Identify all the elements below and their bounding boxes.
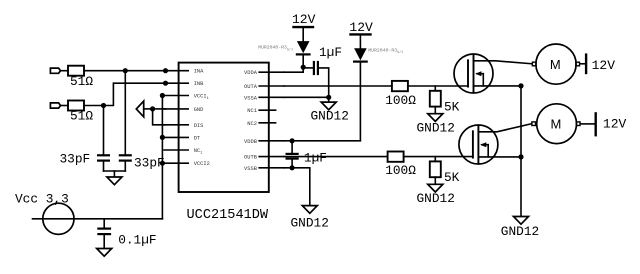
node VCCI1 pin tip — [160, 93, 165, 98]
transistor Q1 — [454, 54, 493, 93]
wire R5 to Q2 gate — [404, 156, 473, 158]
svg-text:12V: 12V — [349, 20, 373, 35]
Q1 arrow — [477, 73, 483, 75]
ground GND12 #2 — [428, 114, 443, 122]
svg-text:1µF: 1µF — [304, 151, 327, 166]
node VSSB junction — [290, 165, 295, 170]
svg-text:OUTA: OUTA — [244, 84, 258, 90]
resistor R1 51ohm — [68, 66, 84, 76]
resistor R6 5K — [430, 161, 441, 177]
svg-text:GND: GND — [194, 107, 204, 113]
svg-text:12V: 12V — [592, 58, 616, 73]
resistor R2 51ohm — [68, 101, 84, 111]
wire node to INB (jog) — [104, 83, 166, 105]
pin 11 VDDB — [259, 140, 284, 142]
node VSSA junction — [326, 95, 331, 100]
svg-text:GND12: GND12 — [501, 224, 539, 239]
node VDDB junction — [290, 138, 295, 143]
wire cap2 branch down to C2 — [124, 71, 126, 156]
svg-text:DIS: DIS — [194, 123, 204, 129]
wire R6 tap — [434, 157, 436, 162]
svg-text:0.1µF: 0.1µF — [118, 232, 156, 247]
pin 16 VDDA — [259, 71, 284, 73]
svg-text:GND12: GND12 — [311, 109, 349, 124]
svg-text:1µF: 1µF — [319, 45, 342, 60]
Q1 drain wire to motor — [474, 61, 533, 64]
wire arrow to node — [144, 108, 153, 110]
pin 13 NC1 — [259, 109, 275, 111]
op-amp U1 UCC21541DW body — [179, 63, 269, 192]
capacitor C5 1uF — [291, 141, 293, 154]
pin 9 VSSB — [259, 167, 284, 169]
source V1 Vcc 3,3 — [43, 203, 74, 234]
Q2 arrow — [482, 144, 488, 146]
wire R6 to ground — [434, 177, 436, 184]
wire source rail — [520, 86, 522, 217]
node INB pin tip — [163, 81, 168, 86]
svg-text:33pF: 33pF — [60, 152, 91, 167]
transistor Q2 — [459, 125, 498, 164]
terminal 12V (M2) — [595, 113, 597, 135]
capacitor C4 1uF — [303, 67, 314, 69]
node Q1 source junction — [518, 83, 523, 88]
Q2 source wire — [478, 156, 521, 158]
ground GND12 #1 — [321, 102, 336, 110]
pin 1 INA — [164, 70, 188, 72]
svg-text:12V: 12V — [292, 12, 316, 27]
svg-text:100Ω: 100Ω — [385, 93, 416, 108]
wire VSSA pin to node — [284, 96, 329, 98]
pin 14 VSSA — [259, 96, 284, 98]
svg-text:NC1: NC1 — [247, 108, 257, 114]
diode D2 — [354, 48, 367, 60]
svg-text:VDDA: VDDA — [244, 70, 258, 76]
wire Vcc rail — [33, 218, 163, 220]
resistor R4 5K — [430, 91, 441, 107]
wire R2 to node — [84, 105, 104, 107]
wire OUTB to R5 — [284, 156, 388, 158]
wire R4 to ground — [434, 107, 436, 114]
wire R3 to Q1 gate — [408, 85, 468, 87]
svg-text:NC2: NC2 — [247, 121, 257, 127]
ground GND12 #5 — [514, 217, 529, 225]
pin 3 VCCI1 — [164, 95, 188, 97]
svg-text:OUTB: OUTB — [244, 155, 258, 161]
wire VSSB to ground — [284, 168, 310, 206]
pin 8 VCCI2 — [164, 162, 188, 164]
svg-text:INB: INB — [194, 81, 204, 87]
resistor R5 100ohm — [388, 152, 404, 162]
node INA pin tip — [163, 68, 168, 73]
pin 2 INB — [164, 82, 188, 84]
svg-text:GND12: GND12 — [291, 215, 329, 230]
node arrow junction — [150, 106, 155, 111]
wire C3 to ground — [103, 234, 105, 248]
svg-text:VCCI2: VCCI2 — [194, 161, 210, 167]
wire P2 to R2 — [61, 105, 69, 107]
svg-text:DT: DT — [194, 135, 201, 141]
pin 6 DT — [164, 136, 188, 138]
pin 4 GND — [164, 108, 188, 110]
wire rail to C3 — [103, 219, 105, 229]
node DT tap — [160, 135, 165, 140]
capacitor C2 33pF — [120, 154, 131, 156]
wire node to DIS pin — [153, 109, 166, 125]
pin 10 OUTB — [259, 156, 284, 158]
wire R4 tap — [434, 86, 436, 91]
wire cap bridge — [104, 170, 126, 172]
Q2 drain wire to motor — [478, 124, 531, 132]
ground (caps) — [107, 177, 122, 185]
resistor R3 100ohm — [392, 81, 408, 91]
svg-text:VSSA: VSSA — [244, 95, 258, 101]
capacitor C3 0.1uF — [98, 228, 110, 230]
svg-text:INA: INA — [194, 69, 204, 75]
wire VDDA pin to node — [284, 67, 303, 72]
diode D1 — [297, 41, 310, 53]
node Q2 source junction — [518, 154, 523, 159]
svg-text:M: M — [550, 57, 561, 72]
wire D2 down to VDDB — [292, 62, 360, 141]
svg-text:Vcc 3,3: Vcc 3,3 — [15, 191, 69, 206]
svg-text:M: M — [551, 117, 562, 132]
pin 7 NC — [164, 149, 188, 151]
wire node to C1 — [103, 106, 105, 156]
svg-text:GND12: GND12 — [417, 121, 455, 136]
motor M2 — [537, 104, 577, 144]
node VCCI2 tap — [160, 161, 165, 166]
wire M2 to 12V bar — [581, 123, 595, 125]
port P2 — [50, 103, 60, 108]
ground GND12 #3 — [302, 206, 317, 214]
wire C4 to VSSA node — [318, 68, 329, 97]
wire D1 to node — [302, 54, 304, 67]
svg-text:51Ω: 51Ω — [70, 74, 93, 89]
ground GND12 #4 — [428, 184, 443, 192]
wire OUTA to R3 — [284, 85, 392, 87]
svg-text:UCC21541DW: UCC21541DW — [187, 208, 269, 223]
wire R1 to INA — [84, 70, 166, 72]
motor M1 — [536, 44, 576, 84]
buffer arrow (DIS) — [136, 101, 143, 117]
Q1 source wire — [474, 85, 522, 87]
svg-text:5K: 5K — [444, 100, 460, 115]
svg-text:12V: 12V — [603, 116, 627, 131]
svg-text:VDDB: VDDB — [244, 139, 258, 145]
pin 5 DIS — [164, 124, 188, 126]
svg-text:5K: 5K — [444, 170, 460, 185]
pin 12 NC2 — [259, 122, 275, 124]
svg-text:100Ω: 100Ω — [385, 163, 416, 178]
wire M1 to 12V bar — [580, 63, 585, 65]
terminal 12V (M1) — [585, 55, 587, 73]
node cap1 branch — [101, 103, 106, 108]
capacitor C1 33pF — [98, 154, 109, 156]
wire node to ground — [328, 97, 330, 102]
node cap2 branch on INA wire — [123, 68, 128, 73]
wire VCC vertical — [161, 96, 163, 219]
svg-text:GND12: GND12 — [417, 191, 455, 206]
pin 15 OUTA — [259, 85, 284, 87]
wire VDDB pin to node — [284, 140, 292, 142]
wire C2 bottom — [124, 161, 126, 171]
svg-text:51Ω: 51Ω — [70, 109, 93, 124]
wire node to GND pin — [153, 108, 166, 110]
wire bridge to ground — [113, 171, 115, 177]
wire C1 bottom — [103, 161, 105, 171]
port P1 — [50, 68, 60, 73]
svg-text:VSSB: VSSB — [244, 166, 258, 172]
node VDDA junction — [301, 65, 306, 70]
ground (C3) — [97, 249, 112, 257]
wire P1 to R1 — [61, 70, 69, 72]
